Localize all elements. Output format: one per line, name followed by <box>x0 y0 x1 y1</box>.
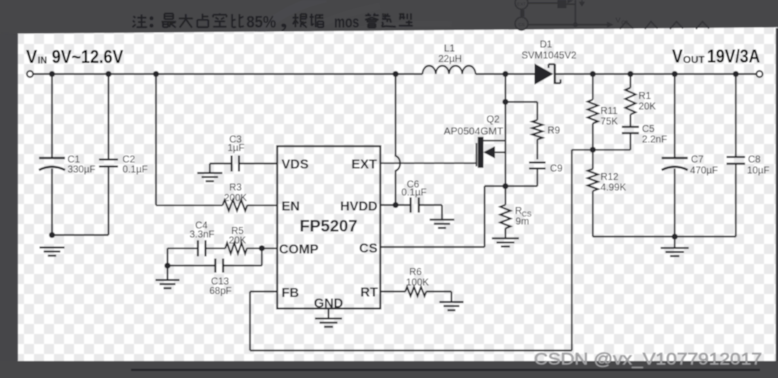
transistor Q2 arrow <box>483 146 495 158</box>
svg-text:V: V <box>672 47 683 67</box>
wire HVDD pin <box>380 204 410 206</box>
transistor Q2 drain link <box>483 140 505 142</box>
capacitor C6 0.1uF <box>410 197 412 212</box>
svg-text:CSDN @vx_V1077912017: CSDN @vx_V1077912017 <box>534 350 762 369</box>
wire comp gnd stub <box>167 266 169 280</box>
svg-text:4.99K: 4.99K <box>601 183 627 194</box>
capacitor C1 (electrolytic 330uF) <box>39 157 65 159</box>
wire C13 right <box>223 265 262 267</box>
wire C1 branch top <box>51 74 53 158</box>
svg-text:HVDD: HVDD <box>340 198 377 213</box>
faint zigzag remnant 1 <box>620 22 633 30</box>
wire GND pin stub <box>328 309 330 319</box>
faint down arrow <box>581 0 583 3</box>
junction EN branch <box>153 71 159 77</box>
svg-text:C9: C9 <box>550 164 563 175</box>
wire RT pin to R6 <box>380 291 405 293</box>
wire VDS pin to C3 <box>239 163 277 165</box>
wire FB down <box>249 292 251 351</box>
wire C3 to ground <box>210 163 232 165</box>
ground comp network <box>156 279 180 281</box>
wire C8 branch top <box>735 74 737 157</box>
ground RT <box>439 301 463 303</box>
svg-text:75K: 75K <box>601 117 619 128</box>
resistor R5 20K <box>225 243 247 254</box>
node VIN label <box>26 47 123 67</box>
wire R11 top <box>592 74 594 100</box>
svg-text:R11: R11 <box>601 106 618 117</box>
svg-text:0.1µF: 0.1µF <box>123 164 148 175</box>
svg-text:3.3nF: 3.3nF <box>189 229 214 240</box>
svg-text:IN: IN <box>38 56 47 67</box>
wire R6 to gnd <box>426 291 451 293</box>
wire output gnd stub <box>674 237 676 248</box>
junction C7 top <box>672 71 678 77</box>
wire VIN rail left section <box>33 73 422 75</box>
svg-text:C5: C5 <box>642 124 655 135</box>
junction C8 top <box>733 71 739 77</box>
faint junction dot <box>573 22 578 27</box>
wire R12 bottom <box>592 191 594 237</box>
wire snubber top <box>505 101 537 103</box>
wire C8 branch bottom <box>735 164 737 237</box>
wire divider mid rail <box>572 149 631 151</box>
wire EXT pin to gate <box>380 162 476 164</box>
wire C2 branch bottom <box>108 167 110 236</box>
capacitor C7 (electrolytic 470uF) <box>662 157 688 159</box>
wire Rcs to gnd <box>504 228 506 238</box>
svg-text:2.2nF: 2.2nF <box>642 135 667 146</box>
svg-text:GND: GND <box>314 295 343 310</box>
resistor R6 100K <box>405 287 426 296</box>
svg-text:C7: C7 <box>691 155 704 166</box>
svg-text:R12: R12 <box>601 172 619 183</box>
svg-text:20K: 20K <box>639 102 657 113</box>
wire input gnd rail <box>52 234 109 236</box>
diode D1 schottky bar <box>554 64 556 84</box>
wire EN branch horizontal <box>156 204 223 206</box>
junction output gnd <box>672 234 678 240</box>
svg-text:200K: 200K <box>224 193 247 204</box>
svg-text:68pF: 68pF <box>209 286 231 297</box>
faint zigzag remnant 3 <box>670 22 683 30</box>
junction C2 top <box>106 71 112 77</box>
resistor R3 200K <box>223 200 248 211</box>
svg-text:EXT: EXT <box>351 156 377 171</box>
svg-text:330µF: 330µF <box>68 164 96 175</box>
svg-text:85%: 85% <box>246 13 276 31</box>
svg-text:V: V <box>616 16 621 25</box>
resistor R12 4.99K <box>588 169 598 191</box>
wire R1 top <box>629 74 631 88</box>
wire FB pin left <box>250 291 277 293</box>
faint node CS bubble <box>515 17 528 30</box>
ground C3 <box>197 172 222 174</box>
capacitor C9 <box>529 161 546 163</box>
ground C6 <box>430 219 455 221</box>
svg-text:Q2: Q2 <box>486 115 499 126</box>
wire C4 to R5 <box>206 247 226 249</box>
wire C13 left <box>168 265 216 267</box>
op-amp U1 FP5207 body <box>277 146 380 308</box>
wire C9 bottom <box>536 169 538 187</box>
capacitor C8 10uF <box>727 156 746 158</box>
faint wire to junction <box>566 3 575 5</box>
resistor Rcs 9m <box>500 205 510 229</box>
separator line <box>131 369 760 371</box>
wire switch node riser <box>504 74 506 186</box>
ground output <box>661 247 689 249</box>
svg-text:100K: 100K <box>406 277 429 288</box>
wire C1 branch bottom <box>51 169 53 236</box>
resistor R1 20K <box>625 88 635 115</box>
wire R3 to EN pin <box>247 204 277 206</box>
wire EN branch vertical <box>155 74 157 205</box>
wire C2 branch top <box>108 74 110 160</box>
svg-text:R3: R3 <box>229 183 242 194</box>
wire FB up to divider <box>571 150 573 351</box>
ground input filter <box>40 247 65 249</box>
wire COMP junction to C4 <box>167 248 169 265</box>
svg-text:SVM1045V2: SVM1045V2 <box>521 51 576 62</box>
faint transistor block <box>557 0 566 8</box>
capacitor C5 2.2nF <box>622 126 639 128</box>
svg-text:10µF: 10µF <box>747 166 770 177</box>
svg-text:0.1µF: 0.1µF <box>401 188 426 199</box>
capacitor C2 (0.1uF) <box>99 159 118 161</box>
resistor R11 75K <box>588 100 598 124</box>
wire R1 to C5 <box>629 115 631 127</box>
terminal VIN <box>27 71 33 77</box>
wire FB bottom run <box>250 350 572 352</box>
svg-text:L1: L1 <box>444 44 455 55</box>
svg-text:mos: mos <box>334 13 359 31</box>
wire R11 bottom <box>592 123 594 149</box>
diode D1 triangle <box>535 64 554 85</box>
svg-text:CS: CS <box>518 22 524 27</box>
note text: max duty 85%, choose mos accordingly <box>133 13 413 31</box>
faint zigzag remnant 2 <box>645 22 658 30</box>
svg-text:CS: CS <box>359 241 378 256</box>
capacitor C3 1uF <box>231 156 233 172</box>
junction HVDD rail <box>393 71 399 77</box>
wire C6 to gnd <box>419 204 442 206</box>
svg-text:D1: D1 <box>540 40 553 51</box>
faint wire CS to Vcs arrow <box>528 24 608 26</box>
junction source node <box>502 183 508 189</box>
wire source to Rcs <box>504 186 506 205</box>
resistor R9 <box>532 120 542 139</box>
svg-text:C8: C8 <box>748 155 761 166</box>
wire R5 to COMP pin <box>247 247 277 249</box>
wire C5 bottom <box>629 133 631 150</box>
terminal VOUT <box>756 71 762 77</box>
svg-text:9m: 9m <box>516 216 530 227</box>
svg-text:9V~12.6V: 9V~12.6V <box>52 47 124 67</box>
svg-text:R9: R9 <box>548 126 561 137</box>
faint zigzag remnant 4 <box>696 22 709 30</box>
svg-text:RT: RT <box>360 284 378 299</box>
faint wire from EXT bubble <box>528 2 558 4</box>
svg-text:OUT: OUT <box>683 55 705 66</box>
svg-text:R1: R1 <box>639 91 652 102</box>
transistor Q2 body bar <box>478 137 484 168</box>
junction R11 top <box>590 71 596 77</box>
wire HVDD to rail (jog around EXT wire) <box>396 74 401 205</box>
svg-text:V: V <box>26 47 37 67</box>
svg-text:20K: 20K <box>229 235 247 246</box>
svg-text:FB: FB <box>282 285 300 300</box>
wire C7 branch bottom <box>674 169 676 237</box>
faint link bar between EXT and CS bubbles <box>520 10 524 17</box>
node VOUT label <box>672 47 760 67</box>
svg-text:VDS: VDS <box>282 156 309 171</box>
ground IC <box>315 318 342 320</box>
svg-text:EN: EN <box>282 198 300 213</box>
capacitor C4 3.3nF <box>197 240 199 256</box>
junction R1 top <box>627 71 633 77</box>
inductor L1 22uH <box>423 66 476 74</box>
junction snubber top <box>502 99 508 105</box>
wire CS to pin <box>380 246 484 248</box>
svg-text:AP0504GMT: AP0504GMT <box>444 127 504 138</box>
svg-text:22µH: 22µH <box>438 54 462 65</box>
junction divider mid <box>590 147 596 153</box>
junction HVDD <box>393 202 399 208</box>
svg-text:R6: R6 <box>409 267 422 278</box>
junction comp gnd <box>165 263 171 269</box>
wire D1 to output <box>556 73 756 75</box>
svg-text:EXT: EXT <box>517 1 526 6</box>
junction input gnd <box>49 232 55 238</box>
transistor Q2 source link <box>495 151 506 153</box>
wire C7 branch top <box>674 74 676 158</box>
junction switch node <box>502 71 508 77</box>
svg-text:1µF: 1µF <box>227 143 244 154</box>
wire L1 to D1 <box>476 73 535 75</box>
capacitor C13 68pF <box>214 259 216 273</box>
svg-text:19V/3A: 19V/3A <box>707 47 760 67</box>
svg-text:FP5207: FP5207 <box>300 218 358 236</box>
ground Rcs <box>492 237 519 239</box>
faint node EXT bubble <box>515 0 528 9</box>
svg-text:COMP: COMP <box>279 242 319 257</box>
svg-text:470µF: 470µF <box>690 166 718 177</box>
junction C1 top <box>49 71 55 77</box>
wire R9 to C9 <box>536 139 538 159</box>
junction COMP <box>259 245 265 251</box>
wire CS riser <box>485 185 506 187</box>
wire output gnd rail <box>593 236 736 238</box>
resistor R12 4.99K top lead <box>592 150 594 169</box>
transistor Q2 gate plate <box>475 143 477 166</box>
